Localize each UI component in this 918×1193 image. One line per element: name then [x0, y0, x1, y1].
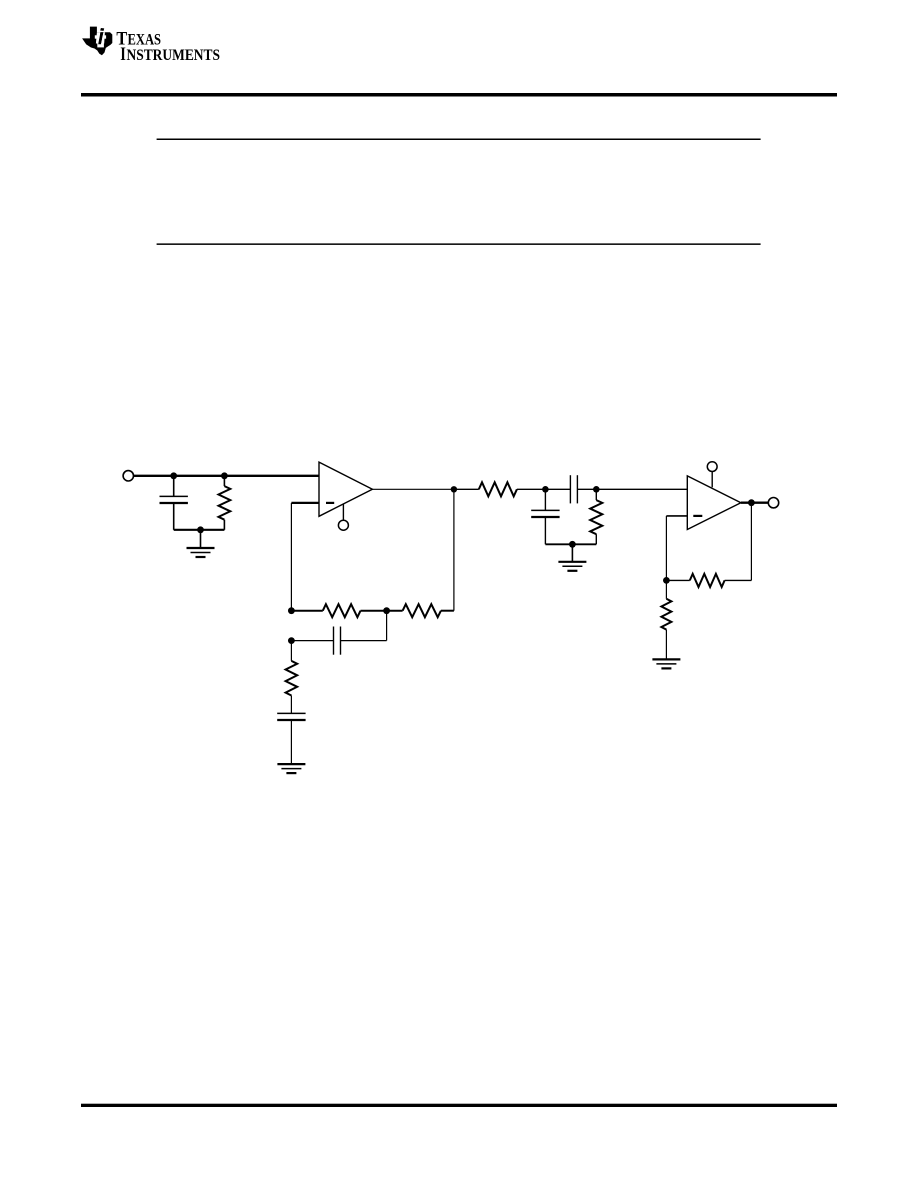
svg-text:NSTRUMENTS: NSTRUMENTS — [127, 47, 221, 64]
svg-text:EXAS: EXAS — [128, 31, 162, 48]
svg-text:I: I — [120, 44, 126, 65]
